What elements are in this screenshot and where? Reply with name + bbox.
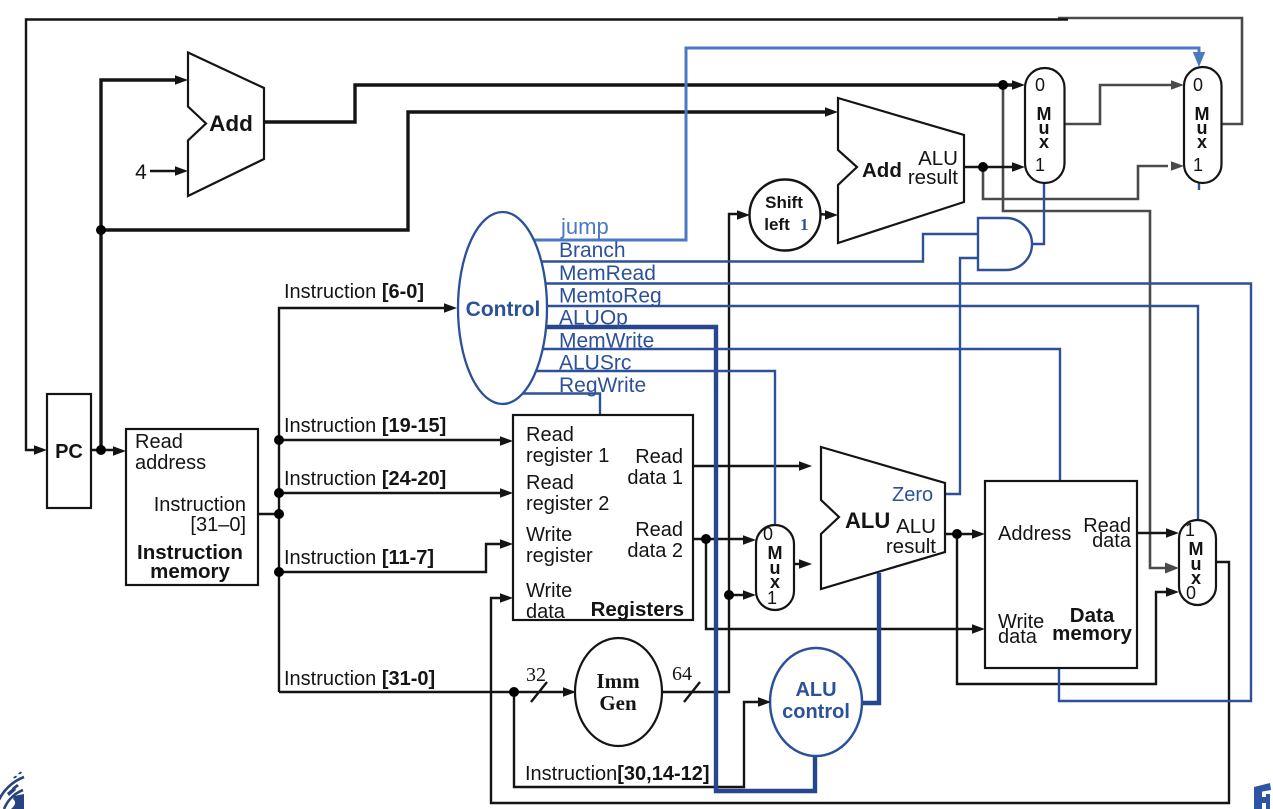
node PC trunk junction bbox=[96, 225, 106, 235]
svg-text:data: data bbox=[1092, 530, 1132, 552]
wire RegWrite control signal to registers bbox=[522, 394, 600, 415]
svg-text:register: register bbox=[526, 545, 593, 567]
block registers bbox=[513, 415, 693, 620]
arrowhead shift output into branch Add bbox=[825, 210, 838, 220]
svg-text:Branch: Branch bbox=[559, 239, 626, 262]
mux M1 PCSrc (top left) bbox=[1025, 68, 1065, 183]
node instruction bus junction B bbox=[274, 488, 284, 498]
circle Shift left 1 bbox=[750, 180, 821, 251]
adder Add (PC+4) bbox=[188, 53, 264, 197]
svg-text:Write: Write bbox=[526, 524, 572, 546]
arrowhead into top mux 1 bbox=[1012, 162, 1025, 172]
svg-text:register 2: register 2 bbox=[526, 493, 609, 515]
wire Instruction[30,14-12] to ALU control bbox=[514, 692, 761, 787]
wire instruction bus vertical bbox=[279, 308, 448, 692]
arrowhead into Write data bbox=[500, 593, 513, 603]
wire Read data 2 to ALUSrc mux 0 bbox=[693, 538, 747, 540]
wire write-back mux output around bottom to Write data of registers bbox=[491, 562, 1229, 803]
arrowhead into data memory Address bbox=[972, 529, 985, 539]
mux M2 jump (top right) bbox=[1184, 67, 1222, 183]
label mux M3 bbox=[763, 524, 783, 608]
svg-text:address: address bbox=[135, 452, 206, 474]
svg-text:data 1: data 1 bbox=[627, 467, 683, 489]
wire ALU result down around data memory to write-back mux 0 input bbox=[957, 534, 1170, 684]
block data memory bbox=[985, 481, 1137, 668]
svg-text:data 2: data 2 bbox=[627, 540, 683, 562]
svg-text:Read: Read bbox=[526, 472, 574, 494]
arrowhead into write-back mux 0 bbox=[1166, 587, 1179, 597]
arrowhead into jump mux 1 bbox=[1171, 161, 1184, 171]
svg-text:1: 1 bbox=[767, 588, 777, 608]
svg-text:memory: memory bbox=[150, 560, 230, 583]
block instruction memory bbox=[126, 429, 258, 585]
arrowhead 4 into Add bbox=[175, 166, 188, 176]
svg-text:1: 1 bbox=[800, 215, 809, 234]
wire branch adder output loop to jump mux 1 input bbox=[983, 166, 1168, 199]
wire PC-feedback loop (mux output to PC) gray segment bbox=[1058, 18, 1242, 124]
svg-text:jump: jump bbox=[560, 214, 609, 239]
svg-text:0: 0 bbox=[763, 524, 773, 544]
svg-text:Instruction: Instruction bbox=[154, 494, 246, 516]
svg-text:Zero: Zero bbox=[892, 484, 933, 506]
oval ALU control bbox=[770, 648, 862, 756]
wire immediate branch into ALUSrc mux 1 input bbox=[729, 594, 747, 596]
wire Instruction[11-7] to Write register bbox=[279, 544, 505, 572]
svg-text:x: x bbox=[1039, 132, 1049, 152]
svg-text:Instruction [31-0]: Instruction [31-0] bbox=[284, 668, 435, 690]
svg-text:data: data bbox=[526, 601, 566, 623]
svg-text:64: 64 bbox=[672, 663, 692, 685]
svg-text:0: 0 bbox=[1035, 75, 1045, 95]
svg-text:Imm: Imm bbox=[596, 669, 640, 693]
mux M3 ALUSrc bbox=[756, 525, 794, 610]
arrowhead Instruction[6-0] into Control bbox=[444, 303, 457, 313]
svg-text:Instruction [19-15]: Instruction [19-15] bbox=[284, 415, 446, 437]
wire constant 4 into Add bbox=[150, 170, 179, 172]
wire ALU result to data memory Address bbox=[945, 533, 976, 535]
wire immediate to shift left and ALUSrc mux 1 bbox=[662, 214, 740, 692]
arrowhead into PC bbox=[34, 445, 47, 455]
svg-text:register 1: register 1 bbox=[526, 445, 609, 467]
logo university seal bottom left bbox=[0, 777, 24, 809]
gate AND bbox=[978, 218, 1032, 270]
node PC output junction bbox=[96, 445, 106, 455]
label mux M1 bbox=[1035, 75, 1052, 175]
svg-text:result: result bbox=[886, 535, 936, 558]
svg-text:Read: Read bbox=[635, 446, 683, 468]
svg-text:Write: Write bbox=[526, 580, 572, 602]
wire Read data 2 down to data memory Write data bbox=[706, 539, 972, 629]
node instruction bus junction D bbox=[274, 567, 284, 577]
arrowhead mux output into ALU bbox=[799, 559, 812, 569]
svg-text:RegWrite: RegWrite bbox=[559, 374, 646, 397]
svg-text:0: 0 bbox=[1186, 583, 1196, 603]
arrowhead into ALUSrc mux 1 bbox=[743, 590, 756, 600]
wire jump control signal to jump mux select bbox=[533, 48, 1199, 240]
oval Imm Gen bbox=[575, 638, 662, 746]
wire select stub under jump mux bbox=[1198, 183, 1200, 190]
svg-text:data: data bbox=[998, 626, 1038, 648]
svg-text:Read: Read bbox=[135, 431, 183, 453]
wire MemWrite control signal to data memory top bbox=[543, 349, 1060, 480]
register PC bbox=[47, 394, 91, 508]
wire data memory Read data to write-back mux 1 input bbox=[1137, 532, 1170, 534]
svg-text:4: 4 bbox=[135, 161, 147, 184]
node ALU result junction bbox=[952, 529, 962, 539]
svg-text:1: 1 bbox=[1035, 155, 1045, 175]
svg-text:Gen: Gen bbox=[599, 691, 637, 715]
svg-text:ALUSrc: ALUSrc bbox=[559, 352, 631, 375]
wire Read data 1 to ALU bbox=[693, 465, 803, 467]
wire Instruction[31-0] to Imm Gen bbox=[279, 691, 566, 693]
svg-text:x: x bbox=[1197, 132, 1207, 152]
svg-text:[31–0]: [31–0] bbox=[190, 514, 246, 536]
label mux M4 bbox=[1185, 520, 1204, 603]
svg-text:Instruction [24-20]: Instruction [24-20] bbox=[284, 468, 446, 490]
wire shift left 1 output to branch adder bbox=[820, 214, 829, 215]
wire PC output to instruction memory bbox=[91, 449, 117, 451]
wire MemtoReg control signal to write-back mux select bbox=[547, 306, 1198, 519]
wire PC value branch to branch adder bbox=[101, 112, 829, 230]
svg-text:MemtoReg: MemtoReg bbox=[559, 285, 662, 308]
svg-text:Instruction [6-0]: Instruction [6-0] bbox=[284, 281, 424, 303]
arrowhead PC into branch Add bbox=[825, 107, 838, 117]
svg-text:Shift: Shift bbox=[765, 193, 803, 212]
svg-text:result: result bbox=[908, 166, 958, 189]
wire ALU control output to ALU bbox=[862, 573, 879, 703]
wire ALUSrc control signal to ALUSrc mux select bbox=[536, 371, 775, 524]
label mux M2 bbox=[1193, 75, 1210, 175]
svg-text:control: control bbox=[782, 701, 850, 723]
arrowheads gray bbox=[1165, 80, 1184, 573]
wire top mux output to jump mux 0 input bbox=[1064, 85, 1175, 124]
mux M4 write-back (MemtoReg) bbox=[1179, 520, 1216, 605]
arrowheads black bbox=[34, 75, 1179, 707]
node instruction bus junction C bbox=[274, 509, 284, 519]
svg-text:Read: Read bbox=[526, 424, 574, 446]
arrowhead into ALUSrc mux 0 bbox=[743, 535, 756, 545]
wire AND gate output to top mux select bbox=[1032, 184, 1044, 244]
arrowhead into top mux 0 bbox=[1012, 80, 1025, 90]
svg-text:Add: Add bbox=[862, 159, 902, 182]
arrowhead into Read register 1 bbox=[500, 436, 513, 446]
node immediate junction bbox=[724, 590, 734, 600]
svg-text:0: 0 bbox=[1193, 75, 1203, 95]
node instruction[31-0] junction bbox=[509, 687, 519, 697]
wire branch adder output to top mux 1 input bbox=[964, 166, 1016, 168]
arrowhead into write-back mux 1 bbox=[1166, 528, 1179, 538]
svg-text:Registers: Registers bbox=[591, 598, 684, 621]
svg-text:1: 1 bbox=[1185, 520, 1195, 540]
svg-text:memory: memory bbox=[1052, 622, 1132, 645]
wire Zero flag from ALU to AND gate bbox=[945, 258, 978, 494]
arrowhead into jump mux 0 bbox=[1171, 80, 1184, 90]
svg-text:MemRead: MemRead bbox=[559, 262, 656, 285]
svg-text:1: 1 bbox=[1193, 155, 1203, 175]
arrowhead into data memory Write data bbox=[972, 624, 985, 634]
arrowhead Read data 1 into ALU bbox=[799, 461, 812, 471]
wire Instruction[19-15] to Read register 1 bbox=[279, 439, 505, 441]
arrowhead blue jump into mux select bbox=[1193, 52, 1205, 67]
svg-text:MemWrite: MemWrite bbox=[559, 330, 654, 353]
svg-text:left: left bbox=[764, 215, 790, 234]
oval Control unit bbox=[458, 212, 547, 404]
wire instruction memory output to bus bbox=[258, 513, 279, 515]
wire PC+4 branch down to write-back mux middle input bbox=[1003, 87, 1168, 568]
arrowhead into Shift left 1 bbox=[737, 210, 750, 220]
svg-text:Address: Address bbox=[998, 523, 1071, 545]
svg-text:ALUOp: ALUOp bbox=[559, 307, 628, 330]
svg-text:Instruction [11-7]: Instruction [11-7] bbox=[284, 547, 434, 569]
arrowhead into Imm Gen bbox=[563, 687, 576, 697]
slash 64-bit on immediate output bbox=[684, 682, 700, 702]
slash 32-bit on immediate input bbox=[531, 682, 547, 702]
svg-text:ALU: ALU bbox=[795, 679, 836, 701]
arrowhead into ALU control bbox=[758, 697, 771, 707]
node branch target junction bbox=[978, 162, 988, 172]
logo F glyph bottom right bbox=[1254, 783, 1271, 809]
svg-text:PC: PC bbox=[55, 441, 83, 463]
arrowhead into Read register 2 bbox=[500, 488, 513, 498]
arrowhead PC+4 into write-back mux bbox=[1165, 563, 1179, 574]
wire PC value trunk up to Add bbox=[101, 80, 179, 452]
wire Branch control signal to AND gate bbox=[541, 234, 978, 262]
alu ALU main bbox=[821, 447, 945, 589]
arrowhead into instruction memory Read address bbox=[113, 446, 126, 456]
node Read data 2 junction bbox=[701, 534, 711, 544]
wire MemRead control signal to data memory bottom bbox=[545, 284, 1251, 702]
svg-text:ALU: ALU bbox=[845, 508, 890, 533]
node instruction bus junction A bbox=[274, 435, 284, 445]
wire PC-feedback loop black segment across top and down left side into PC bbox=[26, 20, 1068, 451]
svg-text:Instruction[30,14-12]: Instruction[30,14-12] bbox=[525, 763, 710, 785]
wire Instruction[24-20] to Read register 2 bbox=[279, 492, 505, 494]
arrowhead into Write register bbox=[500, 539, 513, 549]
svg-text:Read: Read bbox=[635, 519, 683, 541]
svg-text:Add: Add bbox=[209, 111, 253, 136]
node PC+4 junction bbox=[998, 80, 1008, 90]
svg-text:32: 32 bbox=[526, 664, 546, 686]
wire ALUOp control signal to ALU control bbox=[546, 327, 815, 791]
svg-text:Control: Control bbox=[466, 298, 541, 321]
arrowhead PC into Add bbox=[175, 75, 188, 85]
wire Add output (PC+4) to top mux 0 input bbox=[264, 85, 1016, 122]
wire ALUSrc mux output to ALU bbox=[794, 563, 803, 565]
adder Add (branch target) bbox=[838, 98, 964, 243]
